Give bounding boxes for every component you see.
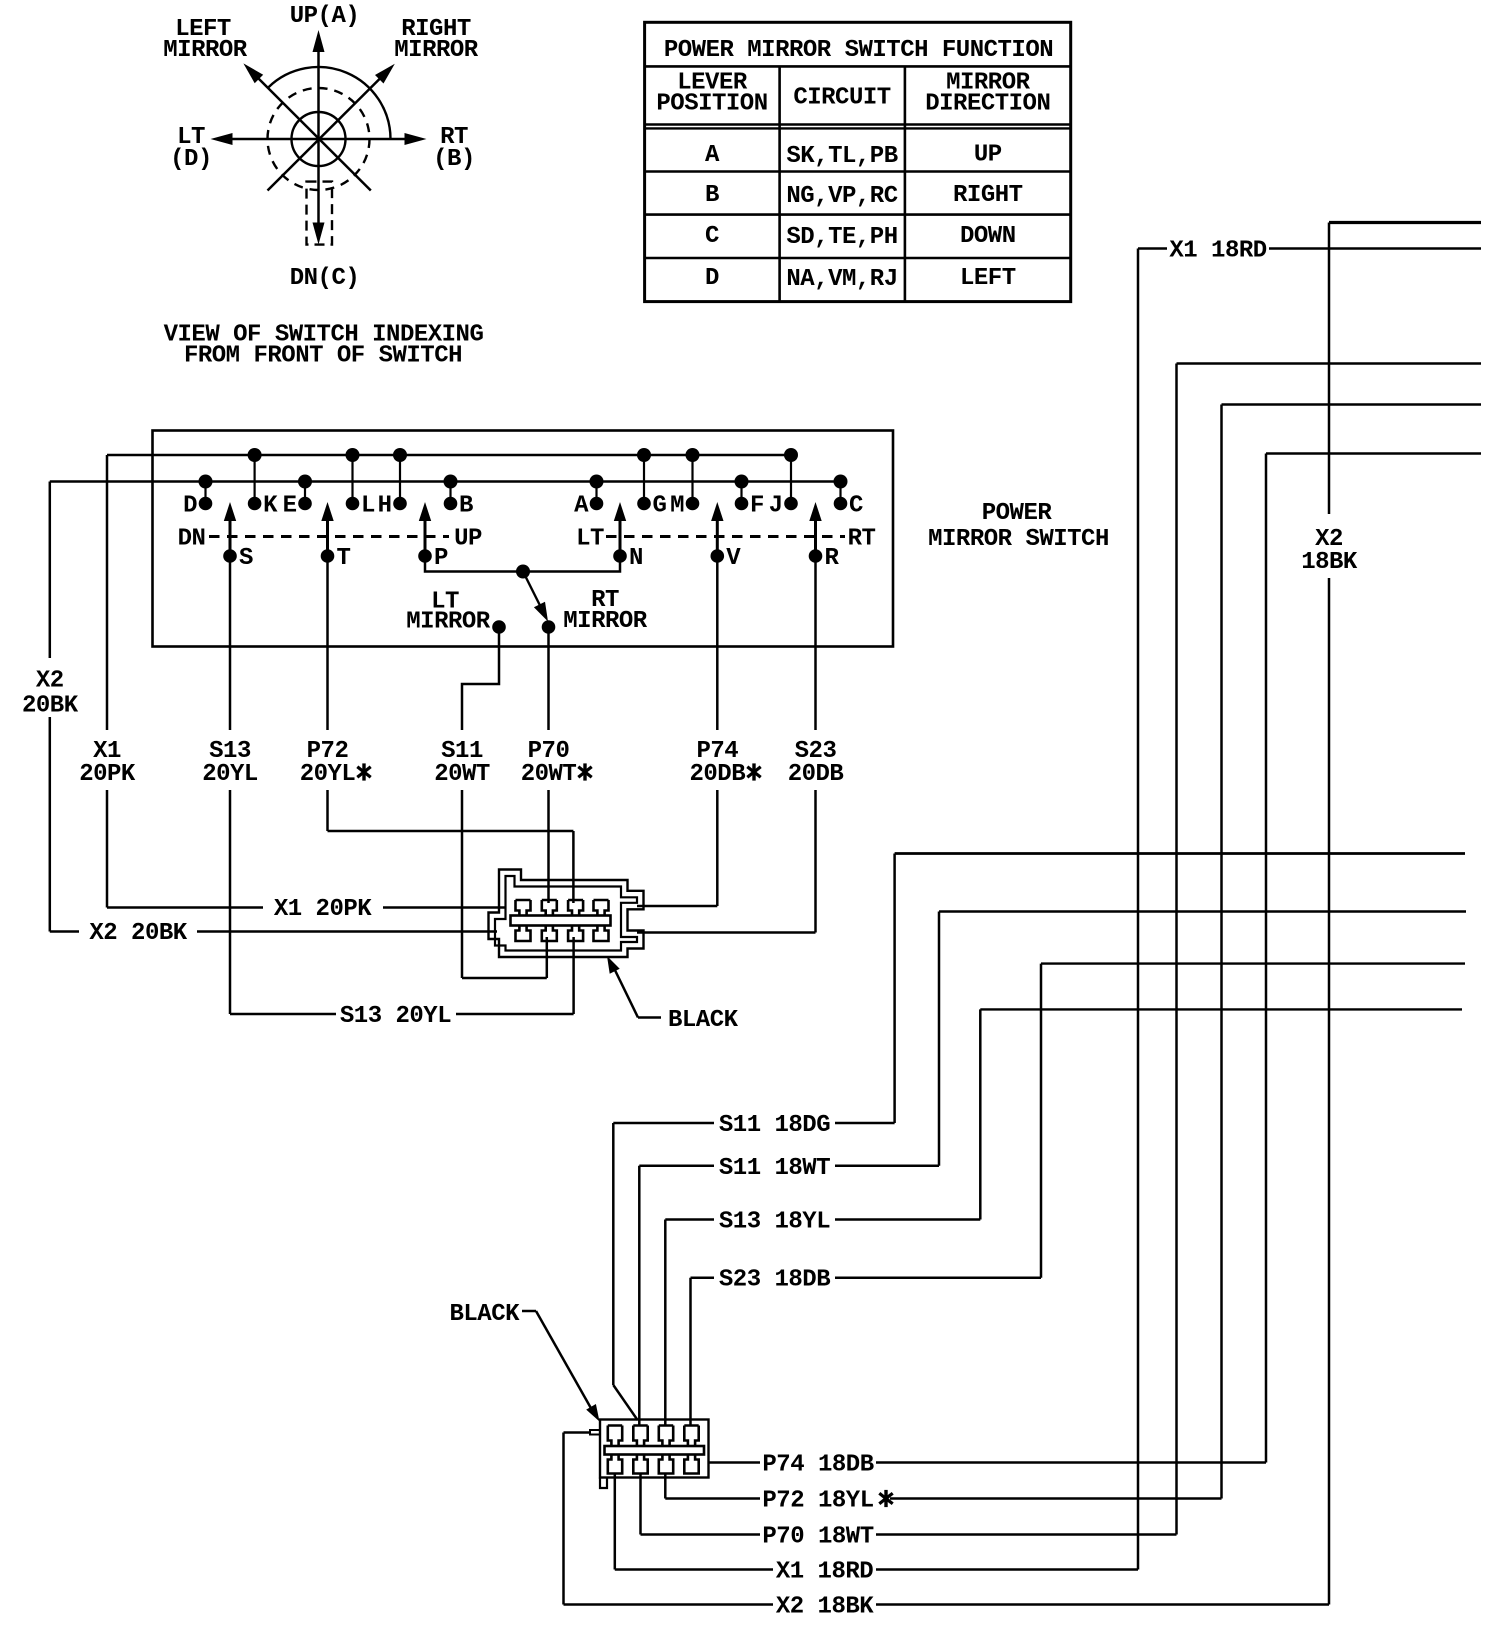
svg-text:R: R bbox=[825, 545, 840, 572]
switch indexing diagram - dashed circle bbox=[268, 88, 370, 190]
label RIGHT MIRROR bbox=[394, 16, 479, 64]
svg-text:X2: X2 bbox=[36, 668, 64, 695]
terminal E bbox=[283, 475, 312, 520]
wire S11 18DG bbox=[613, 854, 1465, 1124]
terminal H bbox=[378, 448, 407, 520]
lower connector terminals bbox=[605, 1426, 705, 1474]
wire S11 18DG drop bbox=[613, 1123, 637, 1420]
svg-text:F: F bbox=[750, 493, 764, 520]
wire S13 18YL bbox=[665, 1009, 1462, 1219]
svg-text:S23 18DB: S23 18DB bbox=[719, 1267, 830, 1294]
svg-text:P70 18WT: P70 18WT bbox=[762, 1524, 873, 1551]
svg-text:MIRROR: MIRROR bbox=[406, 609, 491, 636]
label X1 20PK inline bbox=[274, 896, 372, 923]
terminal R with lever arrow bbox=[809, 502, 840, 572]
label LT MIRROR bbox=[406, 589, 491, 636]
label S11 20WT stacked bbox=[434, 738, 490, 788]
svg-text:MIRROR: MIRROR bbox=[394, 37, 479, 64]
label S23 20DB stacked bbox=[788, 738, 844, 788]
table header MIRROR DIRECTION bbox=[925, 70, 1050, 118]
upper connector shell bbox=[489, 870, 644, 958]
wire upper bus bbox=[107, 454, 791, 457]
svg-text:P: P bbox=[434, 545, 448, 572]
dashed line DN-UP bbox=[209, 535, 449, 538]
terminal F bbox=[735, 475, 764, 520]
svg-text:G: G bbox=[653, 493, 667, 520]
arrow LT(D) bbox=[211, 133, 319, 145]
label LT (D) bbox=[170, 124, 212, 173]
svg-text:SK,TL,PB: SK,TL,PB bbox=[786, 143, 897, 170]
svg-text:DN(C): DN(C) bbox=[290, 265, 360, 292]
label UP bbox=[454, 526, 482, 553]
wire P72 20YL* bbox=[328, 556, 574, 903]
label S13 20YL inline bbox=[340, 1003, 451, 1030]
svg-text:S: S bbox=[239, 545, 253, 572]
label X2 20BK stacked bbox=[22, 668, 79, 720]
terminal V with lever arrow bbox=[711, 502, 742, 572]
svg-text:20WT: 20WT bbox=[434, 761, 490, 788]
svg-text:POWER MIRROR SWITCH FUNCTION: POWER MIRROR SWITCH FUNCTION bbox=[664, 37, 1053, 64]
label X2 18BK stacked bbox=[1301, 526, 1358, 576]
svg-text:T: T bbox=[337, 545, 351, 572]
table row B bbox=[705, 182, 1023, 210]
table title bbox=[664, 37, 1053, 64]
svg-text:RT: RT bbox=[848, 526, 876, 553]
svg-text:20YL: 20YL bbox=[300, 761, 356, 788]
label X1 18RD bottom bbox=[776, 1559, 873, 1586]
svg-text:20WT: 20WT bbox=[521, 761, 577, 788]
svg-text:DIRECTION: DIRECTION bbox=[925, 91, 1050, 118]
wire S13 20YL bbox=[230, 556, 574, 1014]
label LEFT MIRROR bbox=[163, 16, 248, 64]
wire S23 18DB bbox=[691, 964, 1466, 1278]
svg-text:BLACK: BLACK bbox=[450, 1301, 521, 1328]
label P72 18YL* bbox=[762, 1488, 892, 1515]
svg-text:NA,VM,RJ: NA,VM,RJ bbox=[786, 266, 897, 293]
wire lower bus bbox=[50, 480, 841, 483]
label X2 18BK bottom bbox=[776, 1594, 874, 1621]
terminal S with lever arrow bbox=[223, 502, 253, 572]
label LT bbox=[576, 526, 604, 553]
table POWER MIRROR SWITCH FUNCTION - frame bbox=[645, 22, 1071, 301]
svg-text:E: E bbox=[283, 493, 297, 520]
svg-text:X1 18RD: X1 18RD bbox=[776, 1559, 873, 1586]
svg-text:POSITION: POSITION bbox=[656, 91, 767, 118]
label X1 18RD top bbox=[1169, 238, 1266, 265]
table row C bbox=[705, 223, 1016, 251]
arrow LEFT MIRROR diagonal bbox=[243, 63, 370, 190]
terminal P with lever arrow bbox=[418, 502, 448, 572]
svg-text:20DB: 20DB bbox=[788, 761, 844, 788]
terminal T with lever arrow bbox=[321, 502, 351, 572]
svg-text:A: A bbox=[574, 493, 589, 520]
label P72 20YL* stacked bbox=[300, 738, 371, 788]
svg-text:X2 20BK: X2 20BK bbox=[89, 920, 187, 947]
table header LEVER POSITION bbox=[656, 70, 767, 118]
wire P70 18WT bbox=[641, 364, 1482, 1535]
terminal D bbox=[183, 475, 212, 520]
svg-text:MIRROR: MIRROR bbox=[163, 37, 248, 64]
svg-text:P74 18DB: P74 18DB bbox=[762, 1452, 873, 1479]
wire S23 18DB drop bbox=[689, 1278, 692, 1425]
svg-text:20DB: 20DB bbox=[689, 761, 745, 788]
svg-text:P72 18YL: P72 18YL bbox=[762, 1488, 873, 1515]
switch indexing diagram - dashed detent rectangle bbox=[307, 182, 333, 245]
terminal G bbox=[637, 448, 667, 520]
terminal K bbox=[248, 448, 279, 520]
label S13 18YL bbox=[719, 1209, 830, 1236]
svg-text:(D): (D) bbox=[170, 146, 212, 173]
wire P to wiper junction bbox=[425, 556, 523, 572]
wire S23 20DB bbox=[637, 556, 816, 933]
power mirror switch box bbox=[153, 431, 894, 647]
svg-text:DOWN: DOWN bbox=[960, 223, 1016, 250]
terminal J bbox=[769, 448, 798, 520]
label RT MIRROR bbox=[563, 587, 648, 635]
wire P70 20WT* bbox=[547, 627, 550, 903]
lower connector shell bbox=[590, 1420, 709, 1489]
label S11 18DG bbox=[719, 1112, 830, 1139]
svg-text:X1 20PK: X1 20PK bbox=[274, 896, 372, 923]
svg-text:D: D bbox=[705, 265, 719, 292]
label S13 20YL stacked bbox=[202, 738, 258, 788]
label X2 20PK inline bbox=[89, 920, 187, 947]
label DN(C) bbox=[290, 265, 360, 292]
svg-text:S11 18WT: S11 18WT bbox=[719, 1155, 830, 1182]
table header CIRCUIT bbox=[793, 85, 890, 112]
svg-text:H: H bbox=[378, 493, 392, 520]
terminal LT MIRROR dot bbox=[492, 620, 506, 634]
svg-text:MIRROR SWITCH: MIRROR SWITCH bbox=[928, 526, 1109, 553]
table row D bbox=[705, 265, 1016, 293]
wire X1 20PK bbox=[107, 455, 505, 908]
wiper arm arrow bbox=[523, 572, 548, 622]
terminal C bbox=[834, 475, 864, 520]
label RT bbox=[848, 526, 876, 553]
wire X2 18BK bbox=[564, 223, 1482, 1605]
wire N to wiper junction bbox=[523, 556, 620, 572]
svg-text:POWER: POWER bbox=[982, 500, 1053, 527]
svg-text:LT: LT bbox=[576, 526, 604, 553]
svg-text:B: B bbox=[705, 182, 719, 209]
wire P74 18DB bbox=[709, 454, 1482, 1463]
wire S11 18WT bbox=[639, 912, 1466, 1166]
svg-text:N: N bbox=[629, 545, 643, 572]
svg-text:L: L bbox=[361, 493, 375, 520]
svg-text:C: C bbox=[849, 493, 863, 520]
label P70 20WT* stacked bbox=[521, 738, 592, 788]
svg-text:BLACK: BLACK bbox=[668, 1007, 739, 1034]
label P74 18DB bbox=[762, 1452, 873, 1479]
svg-text:LEFT: LEFT bbox=[960, 265, 1016, 292]
svg-text:C: C bbox=[705, 223, 719, 250]
svg-text:X2 18BK: X2 18BK bbox=[776, 1594, 874, 1621]
svg-text:S13 18YL: S13 18YL bbox=[719, 1209, 830, 1236]
svg-text:NG,VP,RC: NG,VP,RC bbox=[786, 183, 897, 210]
label P74 20DB* stacked bbox=[689, 738, 760, 788]
svg-text:MIRROR: MIRROR bbox=[563, 608, 648, 635]
svg-text:CIRCUIT: CIRCUIT bbox=[793, 85, 890, 112]
wire P72 18YL* bbox=[665, 405, 1481, 1499]
svg-text:FROM FRONT OF SWITCH: FROM FRONT OF SWITCH bbox=[184, 343, 462, 370]
wire X2 20BK bbox=[50, 482, 497, 932]
svg-text:V: V bbox=[726, 545, 741, 572]
label DN bbox=[178, 526, 206, 553]
svg-text:UP: UP bbox=[454, 526, 482, 553]
upper connector terminals bbox=[511, 900, 611, 941]
svg-text:DN: DN bbox=[178, 526, 206, 553]
label S23 18DB bbox=[719, 1267, 830, 1294]
svg-text:J: J bbox=[769, 493, 783, 520]
svg-text:A: A bbox=[705, 142, 720, 169]
wire S11 18WT drop bbox=[638, 1166, 641, 1425]
svg-text:20BK: 20BK bbox=[22, 693, 79, 720]
svg-text:S11 18DG: S11 18DG bbox=[719, 1112, 830, 1139]
svg-text:SD,TE,PH: SD,TE,PH bbox=[786, 224, 897, 251]
arrow RT(B) bbox=[319, 133, 427, 145]
terminal L bbox=[346, 448, 376, 520]
switch indexing diagram - outer arc bbox=[269, 67, 391, 139]
wire S11 20WT bbox=[462, 627, 547, 978]
svg-text:M: M bbox=[670, 493, 684, 520]
wire P74 20DB* bbox=[637, 556, 717, 906]
svg-text:S13 20YL: S13 20YL bbox=[340, 1003, 451, 1030]
label P70 18WT bbox=[762, 1524, 873, 1551]
svg-text:K: K bbox=[263, 493, 278, 520]
label UP(A) bbox=[290, 3, 360, 30]
wire X1 18RD bbox=[615, 249, 1481, 1570]
label X1 20PK stacked bbox=[79, 738, 136, 788]
arrow DN(C) bbox=[313, 139, 325, 245]
arrow RIGHT MIRROR diagonal bbox=[268, 64, 395, 191]
arrow UP(A) bbox=[313, 30, 325, 139]
dashed line LT-RT bbox=[606, 535, 845, 538]
svg-text:X1 18RD: X1 18RD bbox=[1169, 238, 1266, 265]
upper connector BLACK callout bbox=[607, 956, 739, 1034]
svg-text:UP: UP bbox=[974, 142, 1002, 169]
svg-text:RIGHT: RIGHT bbox=[953, 182, 1023, 209]
terminal A bbox=[574, 475, 603, 520]
table row A bbox=[705, 142, 1002, 171]
label S11 18WT bbox=[719, 1155, 830, 1182]
terminal N with lever arrow bbox=[613, 502, 643, 572]
svg-text:(B): (B) bbox=[433, 146, 475, 173]
label RT (B) bbox=[433, 124, 475, 173]
label POWER MIRROR SWITCH bbox=[928, 500, 1109, 553]
wire S13 18YL drop bbox=[664, 1220, 667, 1426]
svg-text:UP(A): UP(A) bbox=[290, 3, 360, 30]
terminal B bbox=[444, 475, 474, 520]
svg-text:18BK: 18BK bbox=[1301, 549, 1358, 576]
svg-text:20PK: 20PK bbox=[79, 761, 136, 788]
terminal RT MIRROR dot bbox=[542, 620, 556, 634]
switch indexing diagram - inner circle bbox=[292, 112, 346, 166]
lower connector BLACK callout bbox=[450, 1301, 600, 1422]
wiper junction dot bbox=[516, 565, 530, 579]
svg-text:D: D bbox=[183, 493, 197, 520]
terminal M bbox=[670, 448, 699, 520]
svg-text:20YL: 20YL bbox=[202, 761, 258, 788]
svg-text:B: B bbox=[459, 493, 473, 520]
caption view of switch indexing bbox=[164, 322, 484, 370]
